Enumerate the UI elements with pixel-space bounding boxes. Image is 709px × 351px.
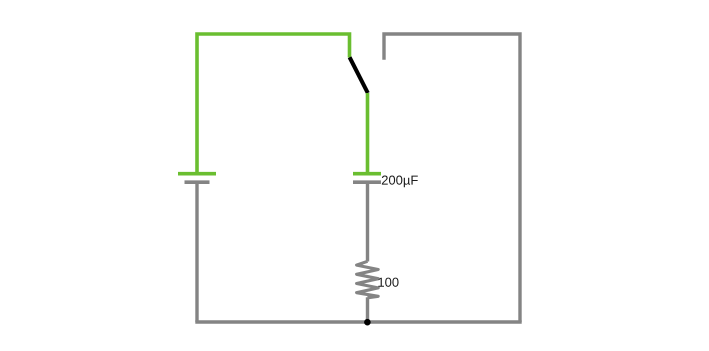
switch S1 lever (black, closed to left throw) xyxy=(350,57,368,93)
wire: gray lead capacitor to resistor xyxy=(366,184,369,262)
capacitor C1 value label xyxy=(382,176,418,188)
wire: gray lead from battery - down to bottom rail xyxy=(195,184,198,322)
capacitor C1 bottom plate (gray) xyxy=(353,180,381,184)
battery V1 negative plate (short, gray) xyxy=(185,180,210,184)
resistor R1 value label xyxy=(378,278,398,287)
resistor R1 zigzag xyxy=(357,261,379,298)
node: junction dot on bottom rail xyxy=(364,319,371,326)
wire: bottom rail xyxy=(195,320,521,323)
wire: green lead from switch common down to capacitor + xyxy=(366,93,370,173)
wire: gray lead resistor to bottom rail xyxy=(366,297,369,322)
battery V1 positive plate (long, green) xyxy=(178,172,216,176)
wire: right loop up and over to switch throw B stub xyxy=(384,34,520,322)
wire: green top wire from battery + to switch throw A xyxy=(197,34,350,173)
capacitor C1 top plate (green) xyxy=(353,172,381,176)
